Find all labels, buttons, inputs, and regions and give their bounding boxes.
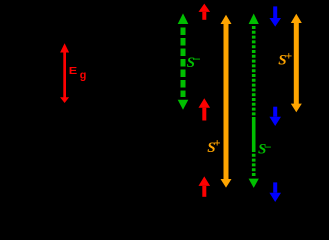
svg-text:+: + <box>214 136 221 150</box>
spin-down arrow (blue, bottom) <box>269 182 281 202</box>
svg-text:−: − <box>264 140 271 155</box>
spin-down arrow (blue, middle) <box>269 107 281 126</box>
svg-text:+: + <box>285 48 292 62</box>
band-gap arrow Eg (red double-headed) <box>60 43 69 103</box>
transition arrow B: orange solid double-headed (sigma-plus, long) <box>221 15 232 188</box>
spin-up arrow (red, middle) <box>199 98 211 120</box>
svg-text:−: − <box>193 52 200 67</box>
spin-down arrow (blue, top) <box>269 6 281 26</box>
transition arrow C: green fine-dashed double-headed (sigma-minus, long) <box>249 14 259 188</box>
transition arrow D: orange solid double-headed (sigma-plus, upper right) <box>291 14 302 112</box>
svg-text:E: E <box>69 66 78 77</box>
spin-up arrow (red, top) <box>199 4 211 20</box>
svg-text:g: g <box>80 70 87 82</box>
transition arrow A: green dashed double-headed (sigma-minus, left) <box>178 13 189 109</box>
spin-up arrow (red, bottom) <box>199 176 211 196</box>
